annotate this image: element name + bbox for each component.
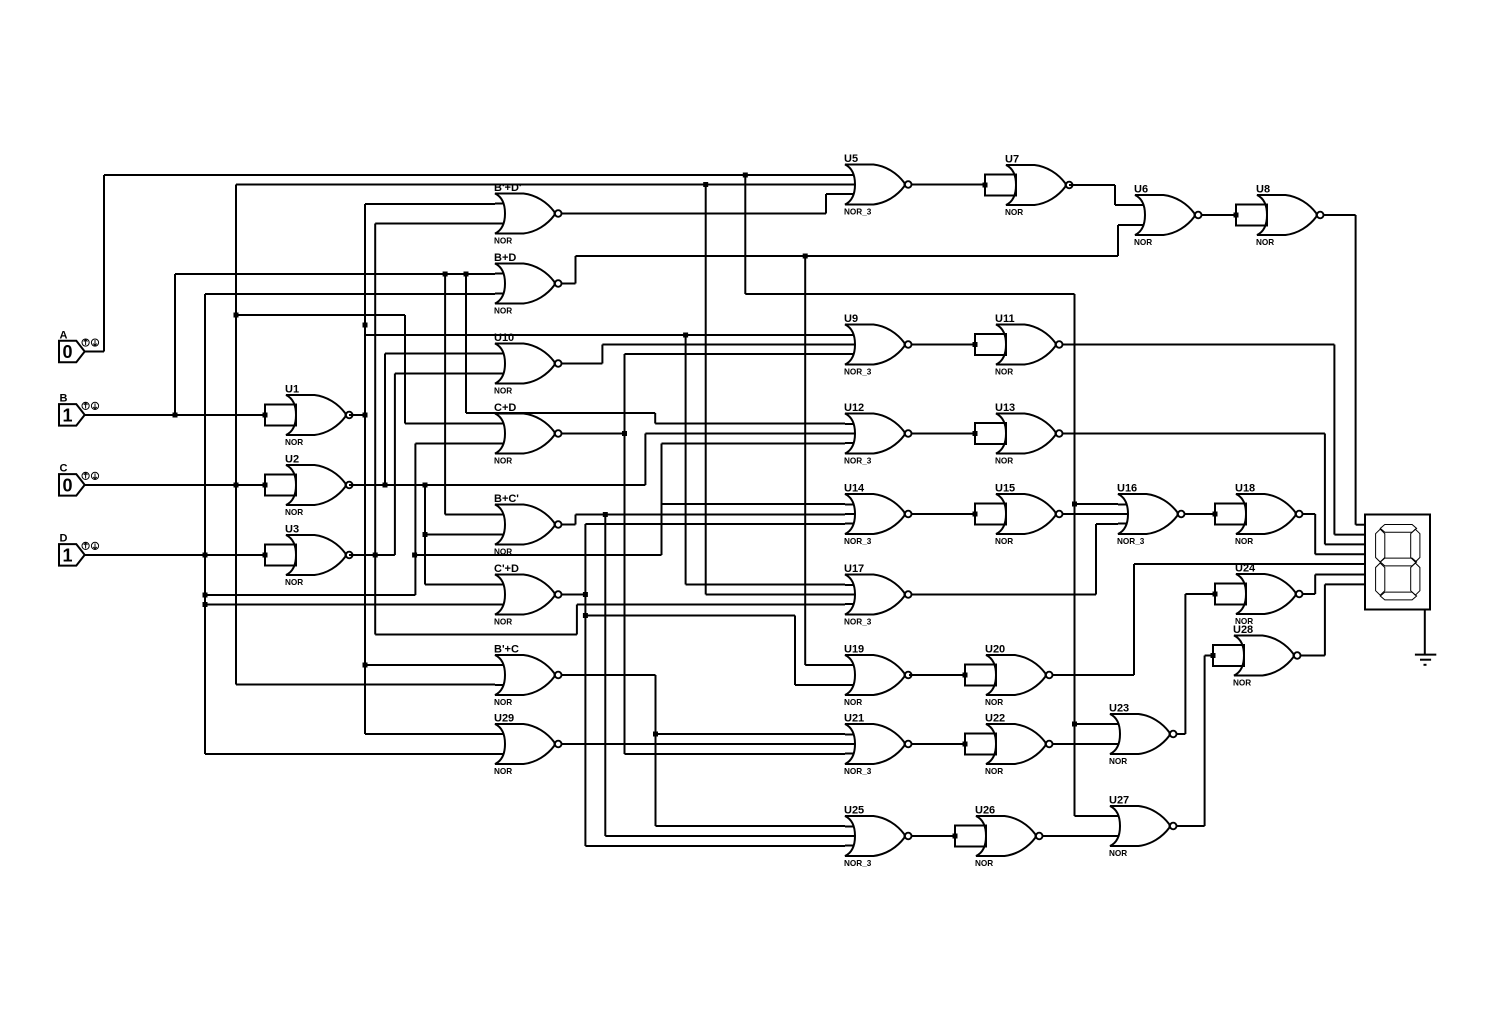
wire C'+D out vertical	[584, 524, 586, 846]
wire D -> U29.in2	[205, 753, 495, 755]
wire	[576, 514, 846, 516]
wire -> U25.in3	[585, 845, 845, 847]
svg-text:NOR: NOR	[285, 438, 303, 447]
svg-text:U11: U11	[995, 313, 1015, 325]
wire	[1096, 523, 1118, 525]
svg-text:NOR_3: NOR_3	[844, 537, 872, 546]
wire	[654, 413, 656, 424]
input connector C	[59, 463, 99, 496]
wire	[1095, 524, 1097, 595]
U13	[973, 402, 1063, 466]
wire C -> U5.in2	[236, 184, 845, 186]
svg-text:NOR: NOR	[494, 618, 512, 627]
wire	[576, 255, 1119, 257]
wire C+D out vertical	[624, 354, 626, 754]
wire	[1415, 654, 1436, 656]
wire D up x=415	[414, 444, 416, 596]
wire	[575, 515, 577, 525]
svg-text:NOR: NOR	[285, 508, 303, 517]
svg-text:1: 1	[62, 405, 72, 425]
wire	[365, 664, 495, 666]
wire D' up	[374, 224, 376, 556]
svg-text:U23: U23	[1109, 703, 1129, 715]
wire	[655, 675, 657, 826]
svg-text:U9: U9	[844, 313, 858, 325]
svg-text:U1: U1	[285, 384, 299, 396]
wire	[1205, 655, 1213, 657]
wire B' -> B'+D'.in1	[365, 203, 495, 205]
svg-text:NOR_3: NOR_3	[844, 618, 872, 627]
U28	[1211, 624, 1301, 688]
wire	[1053, 743, 1111, 745]
display pin b	[1334, 534, 1365, 536]
U11	[973, 313, 1063, 377]
U20	[963, 644, 1053, 708]
svg-text:NOR: NOR	[844, 698, 862, 707]
wire	[804, 256, 806, 665]
wire	[205, 594, 415, 596]
svg-text:B: B	[60, 393, 68, 405]
display segment a	[1380, 525, 1416, 533]
wire	[655, 423, 845, 425]
gate U29	[494, 713, 562, 777]
svg-text:NOR: NOR	[1109, 849, 1127, 858]
junction C+D out	[622, 431, 627, 436]
svg-text:NOR: NOR	[494, 307, 512, 316]
svg-text:NOR: NOR	[285, 578, 303, 587]
U22	[963, 713, 1053, 777]
wire	[1424, 610, 1426, 655]
wire	[384, 354, 386, 486]
wire	[1185, 513, 1216, 515]
wire B' -> U29.in1	[365, 733, 495, 735]
display pin e	[1134, 563, 1365, 565]
junction B -> B+C'	[443, 272, 448, 277]
svg-text:NOR_3: NOR_3	[844, 457, 872, 466]
svg-text:U6: U6	[1134, 184, 1148, 196]
wire	[1053, 674, 1135, 676]
svg-text:U21: U21	[844, 713, 864, 725]
wire	[466, 412, 655, 414]
svg-text:NOR_3: NOR_3	[844, 859, 872, 868]
input connector D	[59, 533, 99, 566]
U26	[953, 805, 1043, 869]
wire	[1324, 584, 1326, 655]
wire C' east	[349, 484, 645, 486]
display segment g	[1380, 558, 1416, 566]
wire	[912, 835, 956, 837]
svg-text:U20: U20	[985, 644, 1005, 656]
wire	[104, 174, 845, 176]
wire	[1303, 513, 1316, 515]
wire	[805, 664, 845, 666]
gate U6	[1134, 184, 1201, 248]
gate U25	[844, 805, 912, 869]
gate U14	[844, 483, 912, 547]
gate U5	[844, 153, 912, 217]
wire	[1133, 564, 1135, 675]
junction B -> U12	[464, 272, 469, 277]
junction D at y=555	[412, 553, 417, 558]
wire D -> C'+D.in2	[205, 604, 495, 606]
wire D' -> U17.in3	[577, 604, 845, 606]
wire	[1063, 433, 1325, 435]
wire C' -> U12.in2	[645, 433, 845, 435]
gate B'+D'	[494, 182, 562, 246]
junction C' down	[423, 483, 428, 488]
junction D branch1	[203, 593, 208, 598]
svg-text:NOR: NOR	[985, 767, 1003, 776]
svg-text:NOR: NOR	[1235, 537, 1253, 546]
wire	[562, 433, 625, 435]
input connector A	[59, 329, 99, 362]
svg-text:U28: U28	[1233, 624, 1253, 636]
svg-text:NOR_3: NOR_3	[844, 208, 872, 217]
svg-text:U16: U16	[1117, 483, 1137, 495]
svg-text:NOR_3: NOR_3	[844, 767, 872, 776]
wire D -> B+D.in2	[205, 293, 495, 295]
junction B'	[363, 323, 368, 328]
svg-text:U26: U26	[975, 805, 995, 817]
display segment d	[1380, 592, 1416, 600]
wire	[912, 594, 1097, 596]
U1	[263, 384, 353, 448]
wire -> U9.in3	[625, 353, 846, 355]
wire	[826, 193, 845, 195]
wire	[562, 674, 656, 676]
gate C+D	[494, 402, 562, 466]
display pin d	[1315, 553, 1365, 555]
U8	[1234, 184, 1324, 248]
wire C' -> C'+D.in1	[425, 584, 495, 586]
U24	[1213, 563, 1303, 627]
U7	[983, 154, 1073, 218]
wire	[1115, 204, 1135, 206]
wire B out to U1	[85, 414, 265, 416]
svg-text:0: 0	[62, 475, 72, 495]
svg-text:U18: U18	[1235, 483, 1255, 495]
svg-text:NOR: NOR	[995, 457, 1013, 466]
svg-text:B'+C: B'+C	[494, 644, 519, 656]
wire	[1063, 513, 1119, 515]
svg-text:1: 1	[62, 545, 72, 565]
wire D out to U3	[85, 554, 265, 556]
wire	[445, 514, 495, 516]
wire	[1118, 224, 1135, 226]
wire	[1355, 215, 1357, 525]
wire	[562, 594, 586, 596]
wire	[236, 314, 405, 316]
junction B+D out -> U19	[803, 254, 808, 259]
gate U9	[844, 313, 912, 377]
display segment e	[1376, 563, 1385, 595]
wire	[562, 363, 603, 365]
svg-text:U7: U7	[1005, 154, 1019, 166]
wire	[912, 344, 976, 346]
wire	[405, 423, 495, 425]
wire	[794, 616, 796, 686]
wire C vertical	[235, 185, 237, 685]
junction C	[234, 483, 239, 488]
wire	[1420, 659, 1431, 661]
junction D'	[373, 553, 378, 558]
wire	[465, 274, 467, 413]
wire -> U25.in1	[656, 825, 846, 827]
junction A -> U23.in1	[1072, 722, 1077, 727]
junction A at x=745	[743, 173, 748, 178]
svg-text:NOR: NOR	[1233, 679, 1251, 688]
gate U23	[1109, 703, 1176, 767]
svg-text:B+C': B+C'	[494, 493, 519, 505]
wire	[444, 274, 446, 515]
gate U21	[844, 713, 912, 777]
junction B	[173, 413, 178, 418]
display pin f	[1315, 574, 1365, 576]
display pin c	[1325, 543, 1365, 545]
gate U12	[844, 402, 912, 466]
wire D -> C+D.in2	[415, 443, 495, 445]
wire D' up x=395	[394, 374, 396, 556]
gate U27	[1109, 795, 1176, 859]
wire	[1314, 514, 1316, 554]
junction B' at U1 out	[363, 413, 368, 418]
wire	[601, 345, 603, 364]
wire	[745, 293, 1074, 295]
gate B+C'	[494, 493, 562, 557]
wire	[1177, 825, 1205, 827]
display pin a	[1356, 524, 1365, 526]
svg-text:NOR: NOR	[494, 698, 512, 707]
wire	[1063, 344, 1335, 346]
wire	[912, 513, 976, 515]
svg-text:NOR_3: NOR_3	[1117, 537, 1145, 546]
svg-text:U5: U5	[844, 153, 858, 165]
svg-text:A: A	[60, 329, 68, 341]
svg-text:NOR: NOR	[985, 698, 1003, 707]
svg-text:U13: U13	[995, 402, 1015, 414]
gate B+D	[494, 252, 562, 316]
svg-text:NOR: NOR	[995, 537, 1013, 546]
junction B+C' out -> U25	[603, 512, 608, 517]
svg-text:U8: U8	[1256, 184, 1270, 196]
junction C -> U17	[703, 182, 708, 187]
wire	[706, 594, 845, 596]
wire	[1202, 214, 1237, 216]
svg-text:D: D	[60, 533, 68, 545]
U18	[1213, 483, 1303, 547]
wire	[1303, 593, 1316, 595]
wire	[424, 485, 426, 585]
wire	[349, 414, 365, 416]
wire	[744, 175, 746, 294]
wire	[404, 315, 406, 424]
display segment b	[1411, 529, 1420, 562]
svg-text:NOR: NOR	[494, 387, 512, 396]
svg-text:U12: U12	[844, 402, 864, 414]
wire D' -> U10.in2	[395, 373, 495, 375]
svg-text:NOR: NOR	[1109, 757, 1127, 766]
svg-text:U3: U3	[285, 524, 299, 536]
wire	[685, 335, 687, 585]
svg-text:NOR: NOR	[494, 457, 512, 466]
junction B' -> U17	[683, 333, 688, 338]
gate C'+D	[494, 563, 562, 627]
wire D vertical	[204, 294, 206, 754]
gate B'+C	[494, 644, 562, 708]
svg-text:NOR: NOR	[1256, 238, 1274, 247]
svg-text:NOR: NOR	[995, 368, 1013, 377]
wire A vertical right	[1074, 294, 1076, 816]
junction D	[203, 553, 208, 558]
wire	[576, 605, 578, 635]
wire	[1301, 655, 1325, 657]
wire	[1204, 656, 1206, 827]
wire C out to U2	[85, 484, 265, 486]
junction C -> C+D	[234, 313, 239, 318]
svg-text:U14: U14	[844, 483, 865, 495]
U3	[263, 524, 353, 588]
wire -> U14.in3	[585, 523, 845, 525]
svg-text:NOR: NOR	[494, 767, 512, 776]
gate U10	[494, 332, 562, 396]
wire	[562, 283, 576, 285]
svg-text:NOR: NOR	[1134, 238, 1152, 247]
display segment c	[1411, 563, 1420, 595]
svg-text:U17: U17	[844, 563, 864, 575]
wire	[912, 184, 986, 186]
wire	[825, 194, 827, 214]
wire C -> B'+C.in2	[236, 684, 495, 686]
junction A -> U16.in1	[1072, 502, 1077, 507]
wire	[912, 743, 966, 745]
wire	[1184, 594, 1186, 734]
wire	[1333, 345, 1335, 535]
wire D' down	[374, 555, 376, 635]
wire	[604, 515, 606, 837]
wire	[585, 615, 795, 617]
wire	[644, 434, 646, 486]
wire B' vertical	[364, 204, 366, 734]
wire	[562, 524, 576, 526]
wire	[686, 584, 845, 586]
wire D -> U12.in3	[662, 443, 846, 445]
U2	[263, 454, 353, 518]
svg-text:NOR: NOR	[975, 859, 993, 868]
wire	[562, 213, 827, 215]
wire	[103, 175, 105, 352]
svg-text:NOR: NOR	[1005, 208, 1023, 217]
wire	[1114, 185, 1116, 205]
wire A -> U27.in1	[1075, 815, 1111, 817]
gate U16	[1117, 483, 1184, 547]
svg-text:C: C	[60, 463, 68, 475]
wire	[1324, 434, 1326, 545]
junction D branch2	[203, 602, 208, 607]
svg-text:U2: U2	[285, 454, 299, 466]
svg-text:U22: U22	[985, 713, 1005, 725]
wire -> U21.in3	[625, 753, 846, 755]
wire	[385, 353, 495, 355]
wire	[1075, 503, 1119, 505]
wire	[1185, 593, 1215, 595]
U15	[973, 483, 1063, 547]
svg-text:0: 0	[62, 342, 72, 362]
wire	[912, 433, 976, 435]
junction C'+D out -> U19	[583, 613, 588, 618]
wire	[1075, 723, 1111, 725]
wire	[1069, 184, 1115, 186]
wire D east run y=555	[415, 554, 661, 556]
junction B'+C out -> U21.in1	[653, 732, 658, 737]
svg-text:U19: U19	[844, 644, 864, 656]
7-segment display U4	[1365, 515, 1430, 610]
wire	[575, 256, 577, 284]
wire	[661, 444, 663, 556]
wire	[175, 273, 495, 275]
wire	[705, 185, 707, 595]
wire	[1424, 664, 1427, 666]
svg-text:NOR_3: NOR_3	[844, 368, 872, 377]
wire	[1177, 733, 1186, 735]
gate U19	[844, 644, 912, 708]
svg-text:U25: U25	[844, 805, 864, 817]
junction B' -> B'+C.in1	[363, 663, 368, 668]
junction C' -> U10.in1	[383, 483, 388, 488]
wire	[1324, 214, 1356, 216]
wire D' -> B'+D'.in2	[375, 223, 495, 225]
svg-text:NOR: NOR	[494, 237, 512, 246]
svg-text:U15: U15	[995, 483, 1015, 495]
input connector B	[59, 393, 99, 426]
wire B' -> U9.in1	[365, 334, 845, 336]
svg-text:U27: U27	[1109, 795, 1129, 807]
wire	[909, 674, 965, 676]
wire	[1043, 835, 1111, 837]
wire	[1117, 225, 1119, 256]
svg-text:U29: U29	[494, 713, 514, 725]
wire	[562, 743, 846, 745]
wire	[425, 534, 495, 536]
svg-text:U10: U10	[494, 332, 514, 344]
svg-text:C'+D: C'+D	[494, 563, 519, 575]
junction C'+D out	[583, 592, 588, 597]
wire D' east	[349, 554, 395, 556]
wire	[602, 344, 845, 346]
wire	[375, 634, 577, 636]
junction C' -> B+C'.in2	[423, 532, 428, 537]
wire	[605, 835, 845, 837]
wire A out	[85, 351, 104, 353]
display pin g	[1325, 583, 1365, 585]
display segment f	[1376, 529, 1385, 562]
wire	[174, 274, 176, 415]
wire D -> U14.in1	[662, 503, 846, 505]
wire	[656, 733, 846, 735]
wire	[1314, 575, 1316, 595]
gate U17	[844, 563, 912, 627]
svg-text:B+D: B+D	[494, 252, 516, 264]
wire	[795, 684, 845, 686]
